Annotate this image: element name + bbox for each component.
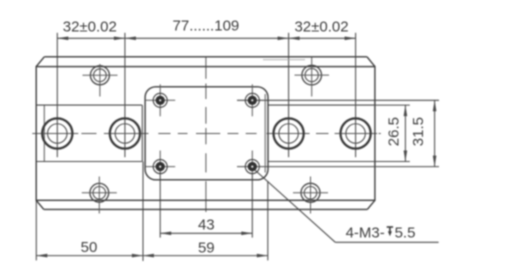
svg-text:4-M3-: 4-M3- [346,224,385,241]
svg-text:5.5: 5.5 [395,224,416,241]
svg-text:77......109: 77......109 [173,18,240,35]
svg-text:43: 43 [198,217,215,234]
svg-text:31.5: 31.5 [410,117,427,146]
svg-text:32±0.02: 32±0.02 [63,18,117,35]
svg-text:32±0.02: 32±0.02 [294,18,348,35]
svg-text:50: 50 [81,239,98,256]
svg-text:26.5: 26.5 [386,117,403,146]
svg-text:59: 59 [198,240,215,257]
